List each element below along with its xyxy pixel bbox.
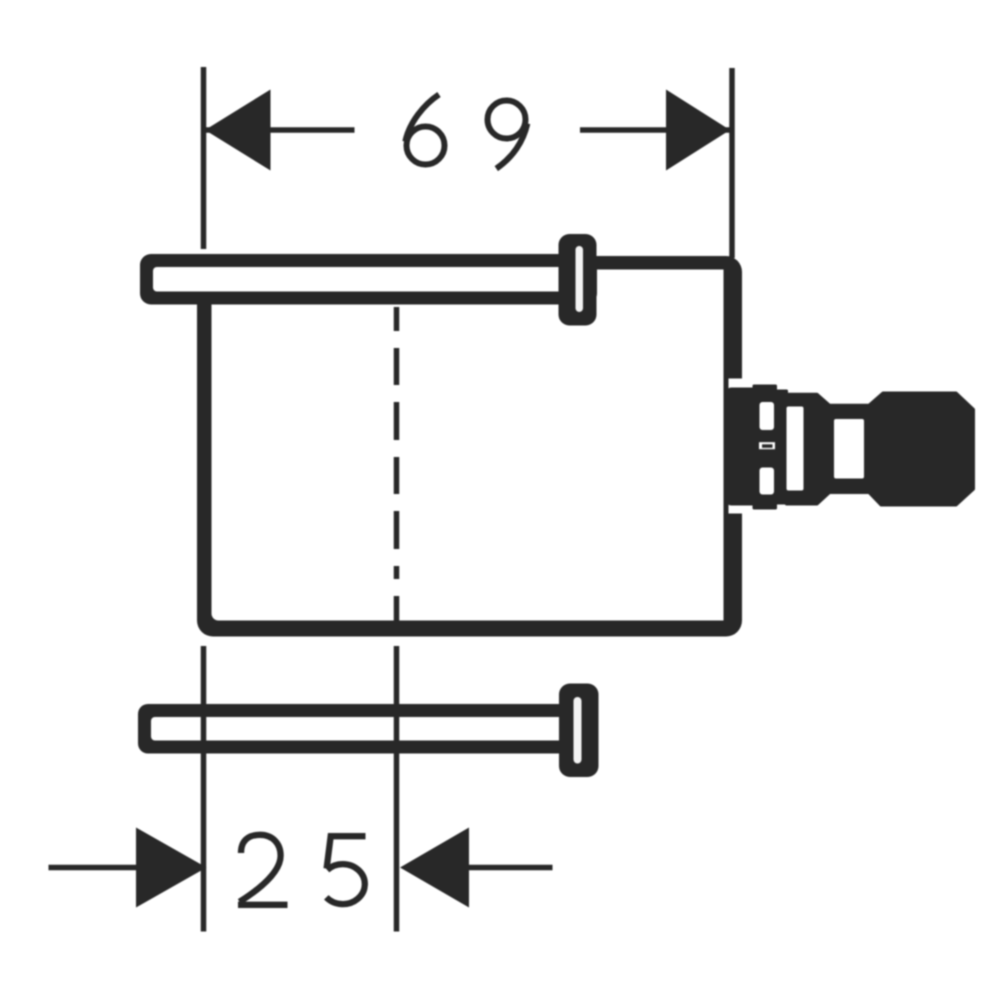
fitting neck window [834, 419, 864, 479]
dimension 69: line segments [204, 127, 355, 133]
bottom screw cap [559, 684, 599, 778]
digit 2 [238, 835, 288, 905]
extension line left top [201, 67, 207, 249]
dimension 69: left arrowhead [205, 90, 271, 171]
bottom screw rod [138, 704, 580, 754]
outlet fitting silhouette (right side) [729, 386, 974, 508]
extension line right top [729, 68, 735, 258]
digit 6 [405, 95, 444, 165]
dimension 25: leader lines [49, 865, 138, 871]
fitting groove slot upper [760, 402, 775, 430]
dimension 69: right arrowhead [666, 90, 730, 171]
dashed centerline (vertical, inside body) [394, 307, 400, 625]
top screw cap [559, 234, 597, 326]
fitting junction notch upper [729, 379, 743, 390]
fitting white ring column [787, 407, 804, 491]
extension line left bottom [201, 646, 207, 932]
fitting center gap + dash [759, 442, 775, 449]
main body outline (wall-mount housing, side view) [197, 256, 742, 637]
fitting groove slot lower [760, 468, 775, 495]
digit 9 [488, 101, 528, 169]
mounting rail (top bar) [140, 254, 597, 305]
dimension 25: left arrowhead (pointing right) [136, 828, 207, 908]
dimension 25: right arrowhead (pointing left) [400, 828, 469, 908]
fitting junction notch lower [729, 504, 743, 514]
digit 5 [326, 836, 365, 904]
extension line center bottom [394, 646, 400, 932]
